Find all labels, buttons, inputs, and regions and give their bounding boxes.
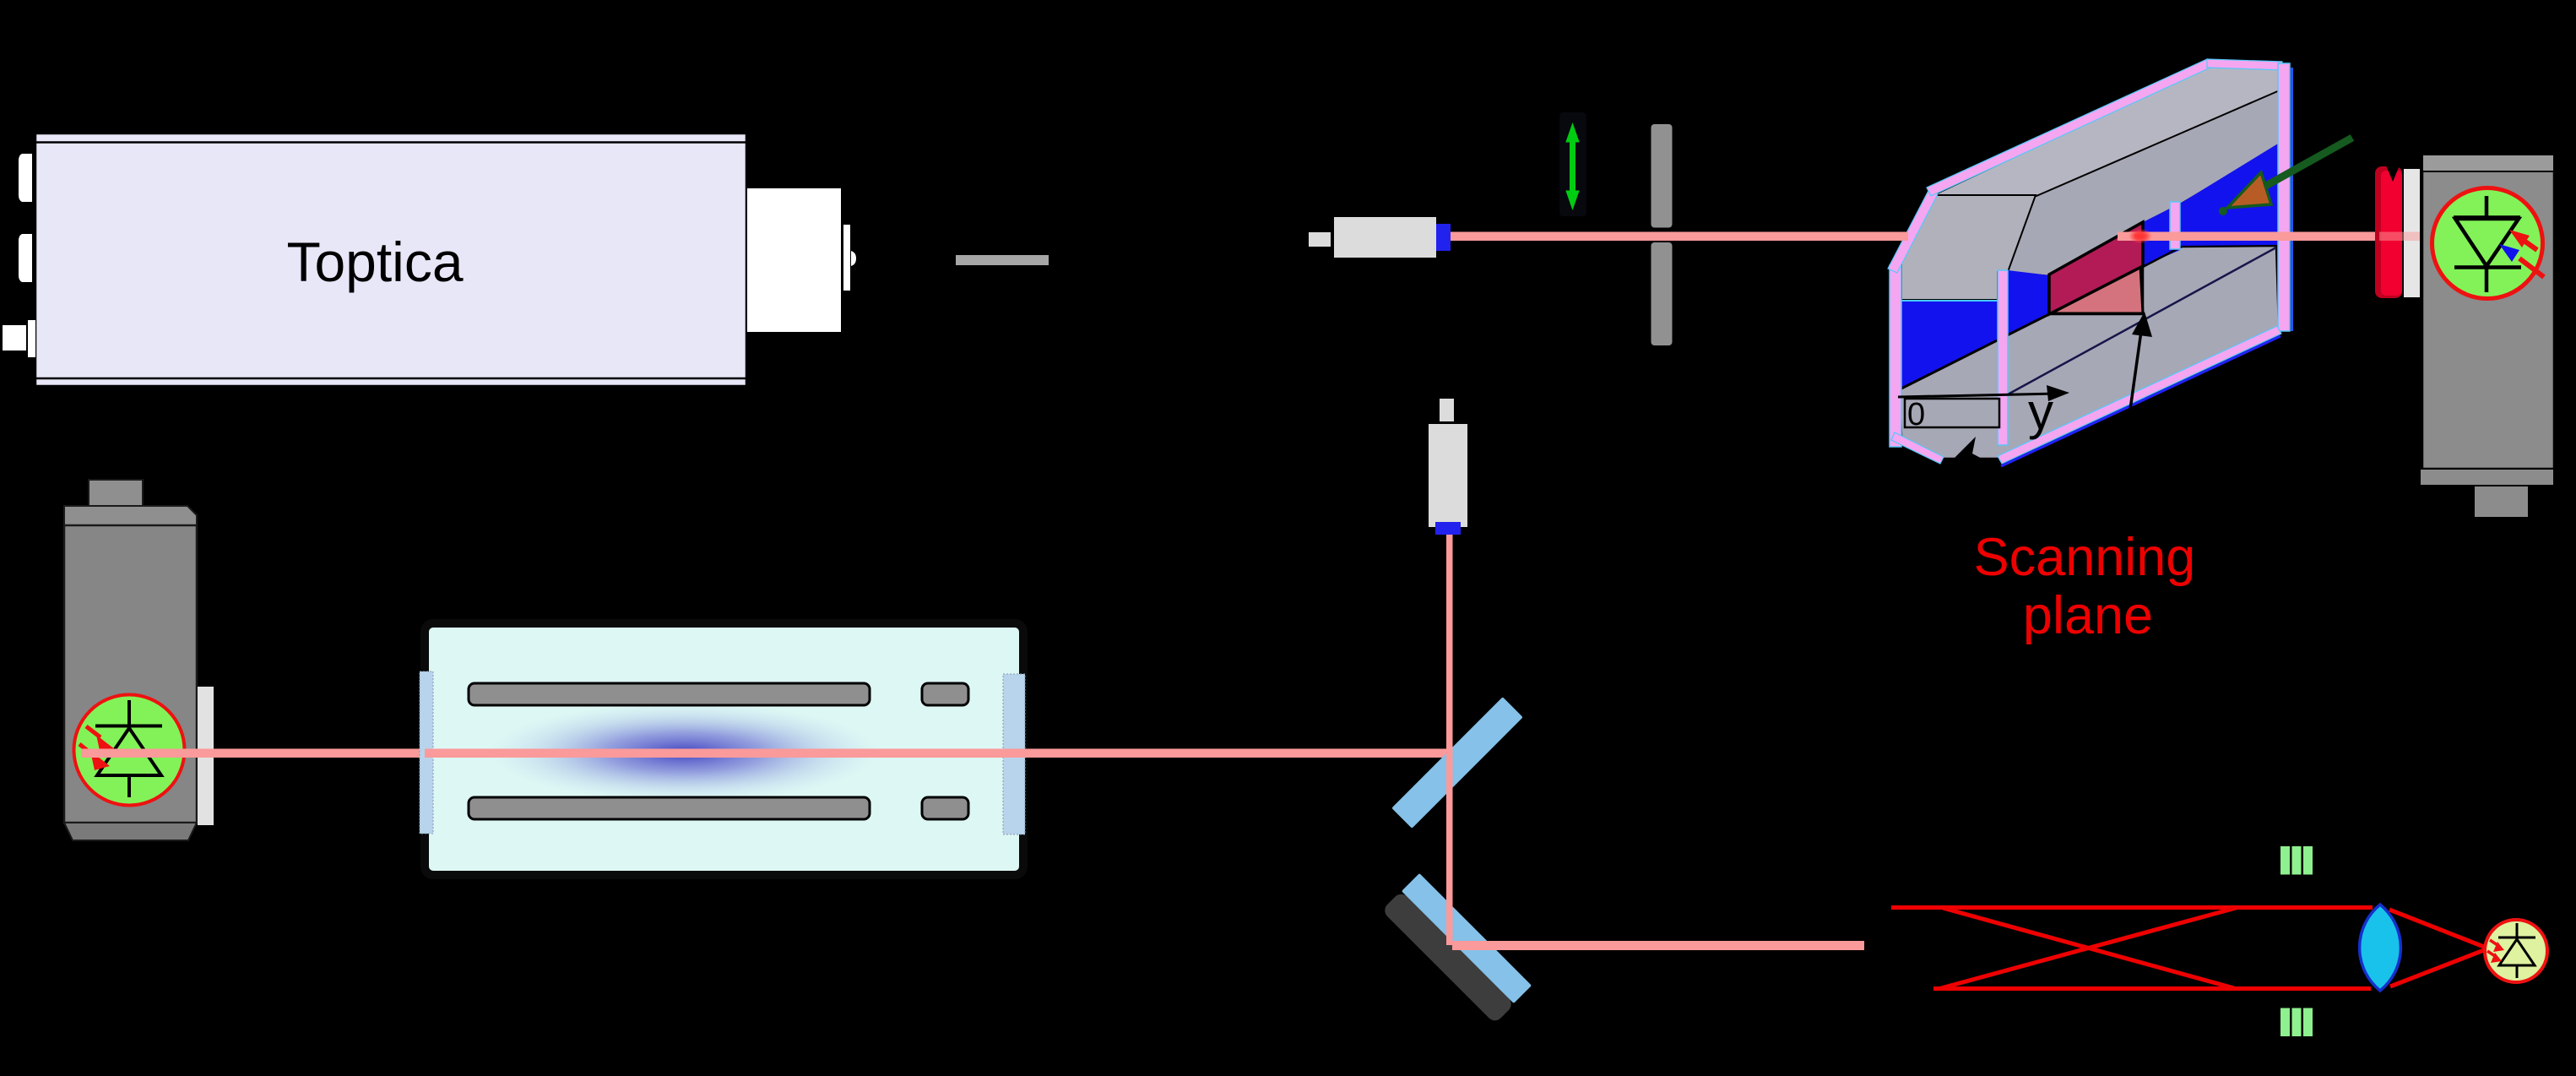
imaging rays [1891,908,2488,989]
pink edge: bottom-right long [1998,326,2281,466]
photodetector diode symbol [2432,188,2545,299]
pink edge: front-left vertical [1890,265,1901,447]
sample slot bottom edge line [1900,247,2182,389]
photodetector body [2420,155,2554,518]
pink edge: front-right vertical [1998,270,2008,445]
mirror M1 glass [1402,873,1532,1003]
green pump arrow [2219,138,2352,215]
sample assembly bottom gray slab [1900,246,2279,459]
sample cell front window liquid [1901,301,1998,389]
slit upper blade [1651,124,1673,228]
grating marks upper [2280,846,2313,875]
sample assembly top face [1933,67,2280,196]
sample crystal top face [2049,222,2143,314]
mirror M1 backing [1381,891,1515,1024]
svg-text:Scanning: Scanning [1974,528,2196,587]
photodiode module body [64,480,214,840]
pink edge: mid-depth vertical [2170,202,2180,249]
beam: coupler to sample [1451,232,1907,242]
origin box [1905,397,1999,432]
optical isolator plate [956,255,1049,265]
beamsplitter BS1 [1391,697,1523,829]
eye detector circle [2485,920,2547,982]
sample cell mid liquid strip [2008,270,2049,335]
sample cell right liquid volume [2180,144,2278,246]
laser controller Toptica [35,133,746,386]
red filter [2375,166,2402,298]
pink edge: long top [1927,59,2210,196]
sample crystal bottom face [2051,266,2143,313]
laser head [747,188,856,332]
scanning plane label [1974,528,2196,645]
svg-text:plane: plane [2023,586,2153,645]
svg-text:Toptica: Toptica [286,231,463,293]
sample cell right liquid sliver [2143,204,2180,266]
imaging lens [2360,905,2401,991]
slit lower blade [1651,242,1673,345]
beam: inside sample slot [2118,232,2379,242]
beam overlay on left edge bar [1889,232,1908,242]
svg-text:y: y [2028,383,2053,440]
beam: photodiode to beamsplitter [81,749,1457,758]
sample assembly upper gray slab [1901,67,2280,300]
grating marks lower [2280,1008,2313,1037]
sample assembly front face upper [1901,195,2036,300]
fiber coupler FC1 [1309,217,1451,258]
polarization arrow background [1559,112,1586,216]
connector 2 [19,234,32,282]
pink edge: top-left bevel [1888,189,1938,273]
beam: mirror to imaging [1452,941,1864,950]
sample assembly reflection line [2008,247,2276,394]
polarization green double arrow [1565,122,1579,210]
sample pointer arrow [2129,312,2152,416]
fiber coupler FC2 [1429,399,1467,535]
pink edge: bottom-left bevel [1891,432,1944,464]
beam continuation over filter [2379,232,2420,242]
svg-text:0: 0 [1907,397,1925,432]
detector mount plate [2404,169,2420,297]
pink edge: right vertical [2278,63,2292,331]
scanning plane pointer arrowhead [1948,437,1987,465]
connector 3 [3,320,35,357]
connector 1 [19,154,32,202]
photodiode module diode symbol [74,695,185,806]
beam: beamsplitter to coupler vertical [1446,535,1453,945]
pink edge: top back horizontal [2207,59,2282,70]
beam focus glow on sample [2129,229,2152,244]
reference cavity [420,623,1025,875]
y axis arrow [1898,383,2069,440]
beam: cavity to beamsplitter overlay [425,749,1455,758]
